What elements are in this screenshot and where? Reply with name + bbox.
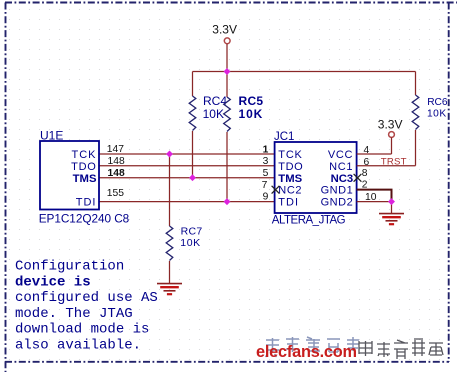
svg-text:elecfans.com: elecfans.com — [256, 343, 357, 361]
svg-text:9: 9 — [263, 192, 269, 203]
svg-text:TDO: TDO — [278, 161, 303, 173]
wire VCC pin4 — [357, 153, 392, 155]
svg-text:mode. The JTAG: mode. The JTAG — [15, 306, 133, 322]
wire TDI bus U1E->JC1 — [99, 201, 275, 203]
wire TRST pin6 to RC6 — [357, 165, 416, 167]
wire GND2 pin10 — [357, 201, 392, 203]
svg-text:U1E: U1E — [40, 129, 63, 143]
svg-text:VCC: VCC — [328, 149, 353, 161]
no-connect X on JC1 pin 7 (NC2) — [272, 186, 280, 194]
resistor RC5 — [224, 72, 264, 202]
svg-text:also available.: also available. — [15, 338, 141, 354]
svg-text:TCK: TCK — [278, 149, 302, 161]
svg-text:TRST: TRST — [381, 156, 407, 167]
junction node TCK/RC7 — [166, 151, 173, 158]
svg-text:NC3: NC3 — [331, 173, 354, 185]
svg-text:RC7: RC7 — [181, 225, 203, 237]
connector JC1 box — [272, 131, 357, 226]
resistor RC4 — [189, 72, 227, 178]
wire GND1 pin2 — [357, 190, 392, 202]
svg-text:5: 5 — [263, 168, 269, 179]
svg-text:148: 148 — [108, 168, 125, 179]
junction node GND — [388, 198, 395, 205]
svg-text:TMS: TMS — [278, 173, 302, 185]
wire TDO bus U1E->JC1 — [99, 165, 275, 167]
power +3.3V P2 at VCC — [378, 117, 403, 154]
svg-text:7: 7 — [262, 180, 268, 191]
svg-text:GND2: GND2 — [321, 197, 354, 209]
svg-text:1: 1 — [263, 144, 269, 155]
junction node TMS/RC4 — [189, 174, 196, 181]
svg-text:device is: device is — [15, 274, 91, 290]
annotation text block — [15, 259, 158, 354]
svg-text:10K: 10K — [203, 107, 224, 121]
svg-text:10K: 10K — [239, 107, 264, 121]
svg-text:3.3V: 3.3V — [378, 117, 403, 131]
svg-text:NC1: NC1 — [329, 161, 353, 173]
svg-text:TCK: TCK — [72, 149, 97, 161]
resistor RC6 — [412, 72, 448, 166]
svg-text:148: 148 — [108, 156, 125, 167]
svg-text:configured use AS: configured use AS — [15, 290, 158, 306]
no-connect X on JC1 pin 8 (NC3) — [354, 174, 362, 182]
svg-text:TDO: TDO — [71, 161, 96, 173]
svg-text:147: 147 — [107, 144, 124, 155]
svg-text:3: 3 — [263, 156, 269, 167]
resistor RC7 — [166, 154, 202, 283]
svg-text:download mode is: download mode is — [15, 322, 149, 338]
svg-text:Configuration: Configuration — [15, 259, 124, 275]
svg-text:TMS: TMS — [73, 173, 97, 185]
svg-text:EP1C12Q240 C8: EP1C12Q240 C8 — [39, 211, 130, 225]
svg-text:GND1: GND1 — [321, 185, 354, 197]
svg-text:8: 8 — [362, 168, 368, 179]
wire 3.3V top rail — [193, 71, 416, 73]
wire TMS bus U1E->JC1 — [99, 177, 275, 179]
svg-text:TDI: TDI — [278, 197, 299, 209]
junction node on 3.3V rail — [224, 68, 231, 75]
wire TCK bus U1E->JC1 — [99, 153, 275, 155]
svg-text:155: 155 — [107, 188, 124, 199]
svg-text:TDI: TDI — [76, 197, 97, 209]
svg-text:ALTERA_JTAG: ALTERA_JTAG — [272, 214, 346, 226]
svg-text:10K: 10K — [427, 108, 447, 119]
svg-text:JC1: JC1 — [274, 131, 294, 143]
svg-text:10K: 10K — [180, 237, 200, 249]
svg-text:NC2: NC2 — [278, 185, 302, 197]
svg-text:RC6: RC6 — [427, 97, 448, 108]
IC U1E box — [39, 129, 130, 226]
svg-text:3.3V: 3.3V — [212, 22, 237, 36]
ground G1 below JC1 — [379, 202, 404, 225]
power +3.3V P1 — [212, 22, 237, 71]
watermark elecfans.com — [256, 337, 443, 361]
junction node TDI/RC5 — [224, 198, 231, 205]
ground G2 below RC7 — [157, 284, 182, 295]
